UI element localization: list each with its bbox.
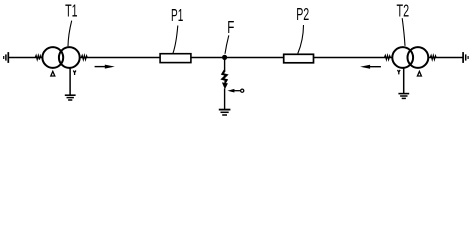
svg-text:T2: T2: [397, 1, 410, 21]
svg-text:P1: P1: [171, 5, 183, 25]
svg-text:T1: T1: [65, 1, 77, 21]
svg-text:P2: P2: [296, 4, 309, 24]
svg-text:F: F: [227, 17, 234, 37]
